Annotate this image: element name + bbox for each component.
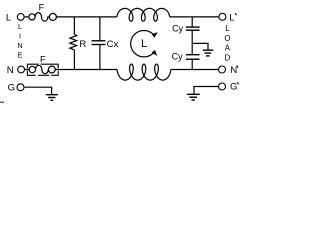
ground (Y-cap midpoint earth) bbox=[203, 50, 214, 56]
terminal N input bbox=[18, 66, 25, 73]
svg-text:F: F bbox=[40, 55, 46, 65]
wire Cy midpoint to ground bbox=[192, 43, 208, 49]
svg-text:R: R bbox=[79, 39, 86, 50]
svg-text:O: O bbox=[224, 34, 230, 43]
svg-text:Cy: Cy bbox=[172, 23, 183, 33]
ground (input earth) bbox=[46, 95, 58, 101]
terminal G' bbox=[219, 83, 226, 90]
svg-text:D: D bbox=[225, 53, 231, 62]
svg-text:I: I bbox=[19, 32, 21, 41]
capacitor Cx (X-capacitor) bbox=[92, 17, 106, 70]
vertical text LOAD bbox=[224, 24, 230, 62]
inductor L top winding (common-mode choke) bbox=[117, 8, 170, 21]
svg-text:L: L bbox=[141, 38, 147, 50]
wire G to ground bbox=[24, 87, 52, 94]
fuse F1 (line fuse) bbox=[29, 13, 57, 22]
wire choke to L' terminal bbox=[170, 16, 219, 18]
resistor R (discharge resistor) bbox=[70, 17, 77, 70]
svg-text:L: L bbox=[229, 13, 234, 24]
svg-text:G: G bbox=[230, 82, 237, 93]
svg-text:N: N bbox=[17, 41, 22, 50]
terminal G input bbox=[17, 84, 24, 91]
svg-text:E: E bbox=[18, 51, 23, 60]
wire N line to choke bbox=[58, 69, 117, 71]
capacitor Cy lower (Y-capacitor) bbox=[186, 55, 200, 70]
svg-text:N: N bbox=[7, 65, 14, 76]
vertical text LINE bbox=[17, 22, 22, 60]
svg-text:L: L bbox=[18, 22, 22, 31]
svg-text:Cy: Cy bbox=[172, 51, 183, 61]
wire bbox=[24, 16, 29, 18]
terminal L' bbox=[219, 13, 226, 20]
svg-text:L: L bbox=[225, 24, 230, 33]
wire choke to N' terminal bbox=[171, 69, 219, 71]
inductor L bottom winding (common-mode choke) bbox=[117, 64, 171, 80]
corner colour mark bbox=[0, 102, 4, 103]
wire G' to ground bbox=[194, 87, 219, 94]
wire bbox=[25, 69, 30, 71]
svg-text:Cx: Cx bbox=[107, 39, 119, 50]
terminal L input bbox=[17, 14, 24, 21]
svg-text:L: L bbox=[6, 12, 11, 23]
ground (output earth) bbox=[187, 94, 200, 100]
svg-text:F: F bbox=[39, 2, 45, 12]
svg-text:G: G bbox=[8, 83, 15, 94]
choke core arrow circle with label L bbox=[131, 31, 158, 57]
svg-text:A: A bbox=[225, 44, 231, 53]
capacitor Cy upper (Y-capacitor) bbox=[186, 17, 200, 55]
svg-text:N: N bbox=[230, 65, 237, 76]
fuse F2 (optional neutral fuse, dashed box) bbox=[27, 64, 58, 76]
wire L line to choke bbox=[56, 16, 117, 18]
terminal N' bbox=[219, 66, 226, 73]
